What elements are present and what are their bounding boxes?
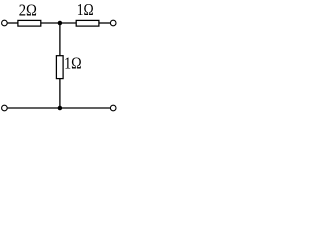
resistor R3 (1 ohm, middle vertical) bbox=[56, 56, 63, 79]
wire: top junction to resistor R2 bbox=[60, 22, 77, 24]
wire: R2 to top-right terminal bbox=[99, 22, 111, 24]
background bbox=[0, 0, 121, 118]
node: bottom junction dot bbox=[58, 106, 63, 111]
node: top junction dot bbox=[58, 21, 63, 26]
resistor R2 (1 ohm, top right) bbox=[76, 20, 99, 26]
terminal: bottom-left open circle bbox=[2, 105, 8, 111]
wire: R1 to top junction node bbox=[41, 22, 60, 24]
wire: bottom-left terminal to bottom junction bbox=[7, 107, 60, 109]
terminal: bottom-right open circle bbox=[110, 105, 116, 111]
wire: top junction down to resistor R3 bbox=[59, 23, 61, 56]
wire: R3 down to bottom junction node bbox=[59, 79, 61, 108]
wire: top-left terminal to resistor R1 bbox=[7, 22, 18, 24]
resistor R1 (2 ohm, top left) bbox=[18, 20, 41, 26]
svg-text:1Ω: 1Ω bbox=[64, 54, 82, 73]
svg-text:1Ω: 1Ω bbox=[77, 0, 94, 19]
terminal: top-right open circle bbox=[110, 20, 116, 26]
wire: bottom junction to bottom-right terminal bbox=[60, 107, 111, 109]
svg-text:2Ω: 2Ω bbox=[19, 0, 37, 19]
terminal: top-left open circle bbox=[2, 20, 8, 26]
